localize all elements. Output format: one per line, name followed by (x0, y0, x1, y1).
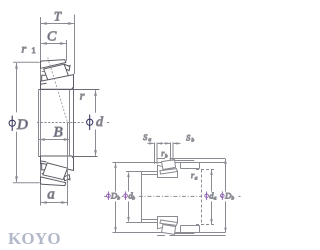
upper cage left stub (42, 75, 48, 82)
cage tab upper (157, 158, 165, 160)
svg-text:r: r (80, 88, 85, 102)
lower cone (158, 217, 178, 229)
svg-text:b: b (191, 138, 194, 144)
long definition lines (113, 162, 226, 164)
upper cone (158, 165, 178, 177)
T dimension (41, 15, 75, 75)
B dimension (39, 138, 70, 141)
upper roller strip (160, 169, 177, 174)
svg-text:b: b (165, 154, 168, 160)
svg-text:1: 1 (32, 45, 36, 55)
phid_a dimension (210, 170, 213, 224)
upper roller axis line (42, 65, 71, 72)
lower cage left stub (42, 163, 48, 170)
upper cage right stub (64, 64, 70, 70)
svg-text:B: B (54, 124, 63, 140)
label phi d_a (205, 191, 209, 200)
housing shoulder double lines (170, 158, 226, 160)
upper cup (outer ring) (40, 60, 65, 69)
shaft shoulder block (141, 172, 143, 223)
phid_b dimension (126, 172, 142, 223)
S_b dimension (164, 142, 181, 161)
svg-text:r: r (22, 42, 27, 56)
lower roller strip (160, 220, 177, 225)
lower cup (162, 225, 176, 235)
lower cone front rib (40, 161, 46, 162)
left face line (continuous, also a-dim ext) (40, 17, 42, 206)
label phi D_b (107, 191, 111, 200)
phiD dimension (13, 62, 40, 182)
svg-text:T: T (54, 9, 62, 23)
bore lines (with phi-d extension) (39, 89, 100, 91)
phid dimension (94, 90, 97, 156)
S_a dimension (148, 142, 164, 164)
C dimension (41, 40, 67, 61)
a dimension (41, 123, 68, 206)
upper cone front rib (40, 83, 46, 84)
upper cup (162, 160, 176, 170)
svg-text:d: d (96, 115, 104, 130)
label phi d_b (124, 191, 128, 200)
label phi D (9, 116, 15, 132)
ext line right (cup back face side) (74, 15, 76, 75)
cage tab lower (157, 235, 165, 237)
phiD_a dimension (224, 159, 227, 233)
housing bore and faces (180, 163, 182, 169)
svg-text:b: b (117, 195, 120, 201)
dashed clearance box (201, 170, 203, 225)
lower cone (inner ring) (41, 156, 74, 170)
svg-text:C: C (47, 30, 57, 45)
svg-text:D: D (16, 117, 28, 133)
label phi d (87, 115, 93, 131)
dim line (41, 23, 74, 25)
lower cage right stub (64, 175, 70, 181)
svg-text:S: S (186, 134, 190, 143)
svg-text:a: a (148, 137, 151, 143)
svg-text:KOYO: KOYO (8, 229, 61, 248)
lower roller (43, 163, 68, 180)
svg-text:b: b (231, 195, 234, 201)
svg-text:S: S (143, 133, 147, 142)
svg-text:a: a (214, 195, 217, 201)
lower cup (outer ring) (40, 177, 65, 186)
svg-text:a: a (195, 175, 198, 181)
phiD_b dimension (114, 163, 117, 232)
upper cone (inner ring) (41, 75, 74, 90)
svg-text:b: b (132, 195, 135, 201)
bore region extension lines (38, 90, 40, 157)
label phi D_a (221, 191, 225, 200)
upper roller (44, 64, 69, 81)
shaft seat lines (158, 177, 179, 179)
axis centerline (dash-dot) (37, 122, 110, 124)
svg-text:a: a (47, 187, 55, 203)
lower roller axis line (42, 173, 71, 180)
axis centerline (dash-dot) (104, 195, 241, 197)
right face line through bore region (73, 75, 75, 170)
load line (diagonal to apex, dotted) (48, 58, 68, 123)
